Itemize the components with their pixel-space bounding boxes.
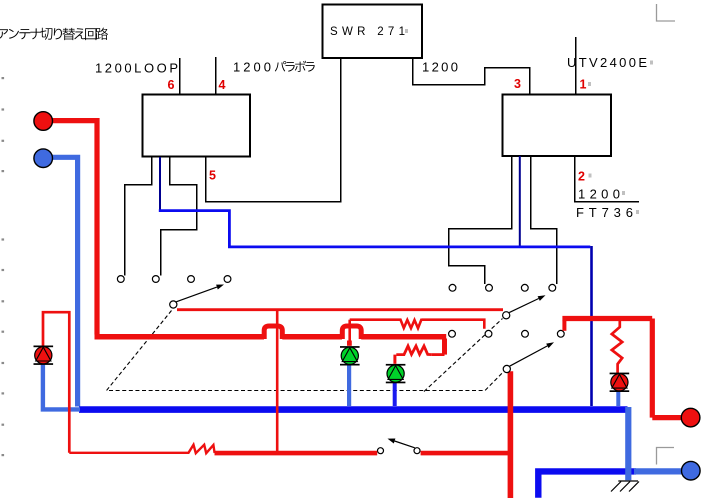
svg-text:FT736: FT736	[576, 205, 633, 220]
svg-text:1200: 1200	[233, 60, 271, 75]
svg-text:1200: 1200	[578, 187, 620, 202]
svg-text:1200: 1200	[422, 60, 458, 75]
svg-text:3: 3	[514, 77, 521, 91]
svg-text:6: 6	[168, 78, 175, 92]
svg-text:1200LOOP: 1200LOOP	[95, 61, 178, 76]
svg-text:UTV2400E: UTV2400E	[567, 55, 647, 70]
svg-text:1: 1	[580, 78, 587, 92]
svg-text:5: 5	[209, 169, 216, 183]
svg-text:4: 4	[219, 78, 226, 92]
svg-text:2: 2	[578, 170, 585, 184]
